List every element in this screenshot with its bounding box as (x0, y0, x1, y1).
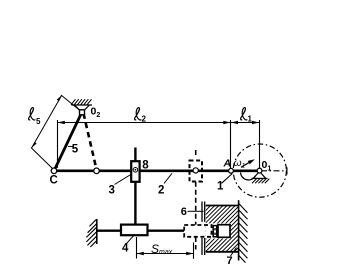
rod collar bars (213, 226, 217, 237)
joint A (229, 168, 234, 173)
svg-text:4: 4 (122, 243, 129, 255)
Smax extension left (136, 237, 138, 259)
link 5 (O2 to C) (54, 112, 82, 171)
arrowhead l5 bottom (32, 142, 37, 148)
piston rod (97, 229, 184, 231)
extension line above A (230, 120, 232, 168)
leader 2 (164, 173, 172, 183)
svg-text:6: 6 (181, 206, 187, 218)
svg-text:02: 02 (91, 106, 101, 120)
label l2 (135, 108, 147, 124)
leader of label 1 (222, 174, 233, 184)
arrowhead l2 left (58, 121, 65, 125)
svg-text:01: 01 (262, 159, 272, 173)
extension line above C (57, 120, 59, 168)
cylinder block 7 hatched (156, 205, 293, 252)
support base O1 (252, 177, 268, 179)
dashed piston (second position) (184, 225, 211, 237)
dashed link to piston (second position) (195, 182, 197, 225)
pin of slider 8 (133, 168, 138, 173)
pivot O1 (257, 168, 262, 173)
svg-text:5: 5 (72, 144, 79, 156)
svg-text:ω1: ω1 (234, 158, 246, 170)
svg-text:2: 2 (158, 185, 164, 197)
svg-text:5: 5 (36, 117, 41, 126)
label l1 (241, 108, 253, 124)
extension line above O1 (259, 120, 261, 168)
gland lines left (201, 202, 203, 222)
leader tick for label 5 (68, 146, 74, 148)
right wall line (238, 200, 240, 260)
right wall hatching (239, 204, 248, 263)
dash-dot axis right of O1 (261, 170, 287, 172)
Smax arrow left (137, 252, 144, 256)
leader 4 (127, 236, 134, 244)
svg-text:8: 8 (142, 160, 149, 172)
svg-text:3: 3 (109, 185, 115, 197)
rotation arrowhead (248, 159, 255, 164)
leader 6 (188, 210, 204, 212)
end tick of axis (286, 167, 288, 174)
ground line above O2 (72, 104, 93, 106)
leader 3 (115, 175, 131, 185)
Smax arrow right (186, 252, 193, 256)
block outline top/bottom (206, 205, 239, 207)
svg-text:1: 1 (217, 181, 224, 193)
dimension line l2 (58, 122, 231, 124)
label l5 (29, 108, 41, 126)
arrowhead l1 right (252, 121, 259, 125)
link 3 vertical rod (134, 148, 136, 225)
arrowhead l2 right (223, 121, 230, 125)
cylinder chamber (206, 223, 230, 238)
dashed crank circle around O1 (233, 144, 286, 197)
joint C (51, 168, 57, 174)
hatching under O1 (252, 179, 269, 184)
dashed axis below piston second position (195, 238, 197, 251)
piston 6 (218, 225, 230, 238)
dimension line l5 (32, 96, 62, 148)
svg-text:C: C (50, 175, 58, 187)
Smax dimension line (137, 253, 194, 255)
Smax extension right (193, 243, 195, 259)
dash above slider 8' (195, 150, 197, 157)
pin of dashed slider (193, 168, 198, 173)
arrowhead l5 top (57, 95, 62, 101)
support legs O1 (253, 172, 259, 179)
rotation arrow line omega1 (241, 161, 252, 168)
svg-text:7: 7 (227, 255, 233, 267)
rotation arc under crank (241, 173, 256, 180)
left wall hatching (86, 219, 96, 247)
arrowhead l1 left (231, 121, 238, 125)
support legs O2 (75, 105, 80, 110)
leader 7 (231, 248, 237, 257)
svg-text:Smax: Smax (151, 242, 173, 256)
svg-text:A: A (223, 158, 232, 170)
slider 4 block (121, 225, 148, 236)
pivot square O2 (80, 110, 85, 115)
dimension l5 extension line at O2 (61, 95, 80, 111)
slider 8 block (131, 161, 139, 182)
dashed link 5' (second position) (84, 114, 97, 169)
svg-text:1: 1 (248, 115, 253, 124)
ground hatching above O2 (71, 99, 92, 105)
dimension line l1 (231, 122, 260, 124)
dashed slider 8' (190, 161, 203, 182)
dimension l5 extension line at C (31, 148, 54, 170)
left wall line (96, 219, 98, 244)
svg-text:2: 2 (142, 115, 147, 124)
link 2 main bar (54, 170, 260, 173)
joint C' (dashed position) (94, 168, 100, 174)
